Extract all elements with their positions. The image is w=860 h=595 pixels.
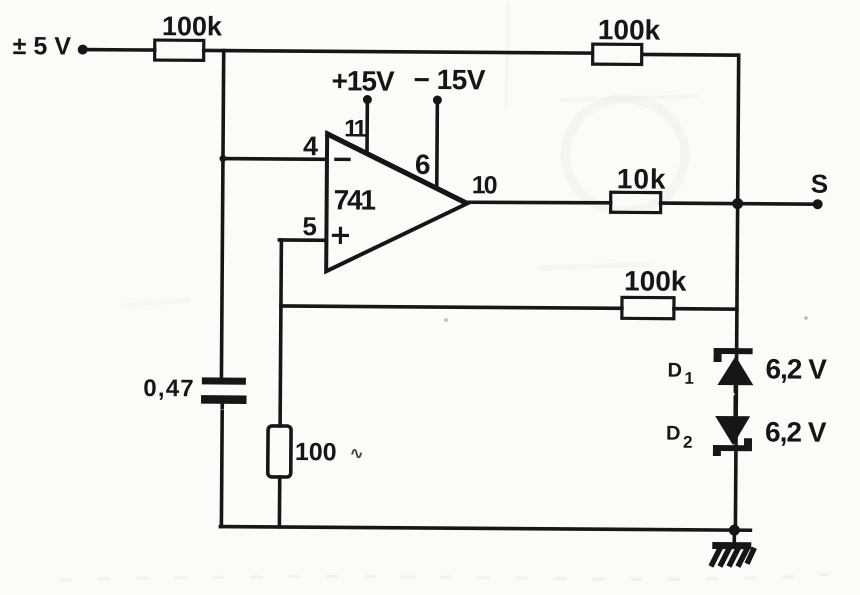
wire feedback mid horizontal [281, 306, 622, 308]
+15V terminal dot [363, 95, 372, 104]
svg-text:D: D [667, 360, 682, 382]
plus sign non-inverting input [333, 228, 347, 242]
wire R4 to right rail [674, 307, 737, 311]
svg-text:6,2 V: 6,2 V [765, 416, 827, 447]
svg-text:741: 741 [334, 184, 376, 215]
wire -15V to pin 6 [435, 100, 439, 188]
wire D1 to D2 [733, 385, 737, 416]
wire +15V to pin 11 [365, 100, 369, 154]
svg-text:100k: 100k [162, 11, 223, 41]
resistor R3 10k [611, 192, 661, 212]
ground bar [712, 542, 751, 549]
resistor R2 100k [593, 44, 642, 64]
svg-text:± 5 V: ± 5 V [13, 32, 72, 60]
wire right vertical rail [735, 55, 738, 530]
svg-text:S: S [811, 169, 829, 199]
svg-text:0,47: 0,47 [143, 375, 195, 402]
wire R3 to S terminal [661, 203, 818, 204]
zener D2 cathode bar [713, 438, 752, 456]
wire pin4 [223, 157, 325, 161]
junction node A [219, 155, 226, 162]
svg-text:1: 1 [684, 369, 694, 388]
wire pin5 horizontal [279, 238, 326, 242]
svg-text:100: 100 [295, 438, 337, 466]
capacitor C1 plate top [205, 377, 242, 384]
input terminal dot [78, 45, 88, 55]
svg-text:4: 4 [303, 131, 318, 161]
wire R1 to R2 (top rail) [204, 50, 592, 53]
svg-text:6,2 V: 6,2 V [765, 353, 827, 384]
svg-text:∿: ∿ [350, 445, 364, 462]
wire left rail top (node A) [221, 51, 223, 377]
junction output node [732, 198, 743, 209]
svg-text:− 15V: − 15V [413, 64, 485, 96]
wire pin5 vertical down [280, 240, 281, 426]
wire input to R1 [83, 48, 155, 52]
minus sign inverting input [336, 158, 349, 161]
svg-text:6: 6 [415, 149, 431, 180]
-15V terminal dot [433, 96, 442, 105]
svg-text:10k: 10k [617, 163, 667, 194]
zener D1 cathode bar [714, 348, 753, 362]
junction bottom right [729, 525, 740, 536]
svg-text:10: 10 [472, 171, 497, 199]
wire C1 to bottom rail [220, 403, 224, 527]
svg-text:11: 11 [344, 115, 367, 142]
capacitor C1 plate bottom [205, 395, 242, 404]
wire bottom rail [220, 527, 750, 531]
resistor R5 100ohm vertical [268, 426, 291, 477]
op-amp U1 741 [326, 133, 468, 272]
resistor R1 100k [155, 40, 204, 60]
ground stub [732, 530, 736, 543]
output terminal dot S [813, 199, 823, 209]
wire R2 to right rail corner [644, 53, 739, 57]
op-amp top edge emphasis [328, 134, 465, 202]
wire R5 to bottom rail [278, 477, 282, 527]
zener D2 triangle [715, 416, 750, 445]
wire output to R3 [468, 202, 611, 203]
resistor R4 100k [622, 297, 674, 318]
svg-text:+15V: +15V [331, 65, 395, 96]
zener D1 triangle [717, 356, 753, 385]
svg-text:D: D [666, 423, 681, 445]
svg-text:2: 2 [683, 433, 693, 452]
svg-text:100k: 100k [598, 14, 661, 45]
ground hatching [712, 548, 753, 564]
svg-text:100k: 100k [624, 265, 687, 296]
svg-text:5: 5 [302, 211, 317, 241]
